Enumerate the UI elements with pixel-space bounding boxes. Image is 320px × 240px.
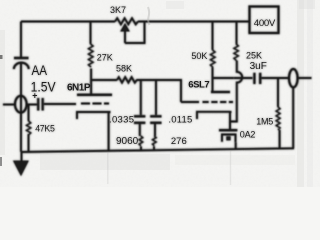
svg-text:27K: 27K <box>97 53 113 63</box>
wire: output line from plate node <box>213 77 234 79</box>
faint scan squiggle right of 3K7 loop <box>148 7 150 25</box>
resistor 47K5 <box>28 105 30 122</box>
resistor 25K <box>234 44 238 61</box>
capacitor 3uF right plate <box>259 73 261 84</box>
paper background <box>0 0 320 187</box>
wire: 58K to 6SL7 grid <box>137 80 182 102</box>
svg-text:+: + <box>32 91 37 101</box>
svg-text:276: 276 <box>171 136 187 147</box>
scan artifact marks at left edge <box>0 55 3 166</box>
0A2 cathode (inverted U) <box>222 135 236 143</box>
resistor 3K7 (potentiometer) <box>115 18 138 24</box>
wire: top rail drop to 27K <box>90 22 92 45</box>
wire: jack to coupling cap <box>27 104 38 106</box>
battery AA 1.5V: curved plate <box>14 63 29 69</box>
wire: node to 58K <box>91 79 117 81</box>
capacitor .0115 plates <box>150 115 161 117</box>
plate of 6N1P <box>77 94 112 96</box>
svg-text:.0335: .0335 <box>109 114 134 125</box>
svg-text:47K5: 47K5 <box>35 124 55 134</box>
svg-text:0A2: 0A2 <box>240 130 256 140</box>
output jack (circle) <box>289 69 298 87</box>
faint left edge streak <box>0 30 5 155</box>
light scan band above bottom edge <box>40 154 170 170</box>
wire: top rail drop to 50K <box>212 22 214 51</box>
wire: top rail left segment <box>21 21 115 23</box>
svg-text:58K: 58K <box>116 64 132 74</box>
wire: 27K to 6N1P plate <box>90 69 92 95</box>
wire: wiper loop to right end of 3K7 <box>125 22 145 43</box>
capacitor 3uF left plate <box>253 73 255 84</box>
svg-text:50K: 50K <box>191 51 207 61</box>
resistor 58K <box>117 77 137 82</box>
wire: right of output jack <box>298 77 312 79</box>
faint smudge top right <box>166 1 184 9</box>
scan halo (blurred ghost of circuit) <box>3 5 312 175</box>
light scan streaks right side <box>297 0 304 187</box>
resistor 27K <box>89 44 94 67</box>
battery AA 1.5V: flat plate <box>14 57 29 59</box>
grid of 6SL7 (solid+dashed) <box>181 101 199 103</box>
ground arrow <box>21 152 23 162</box>
wire: hop over output line (25K lead) <box>234 77 253 79</box>
svg-text:AA: AA <box>32 63 48 78</box>
wire: 25K lead with hop over output wire <box>230 61 242 122</box>
wire: ground rail <box>21 148 294 152</box>
wire: cap to 6N1P grid (solid part) <box>44 103 76 105</box>
power supply box 400V <box>250 7 279 34</box>
resistor 50K <box>211 50 216 67</box>
capacitor .0335 branch wire <box>140 80 142 115</box>
wire: top rail right segment <box>138 21 250 23</box>
capacitor (input coupling, +) left plate <box>37 98 39 111</box>
0A2 anode plate <box>219 129 237 131</box>
3K7 wiper arrow <box>124 31 126 44</box>
wire: down to 0A2 anode <box>229 122 231 130</box>
wire: 6N1P cathode to ground <box>108 112 110 151</box>
wire: through jack down to ground rail <box>20 96 22 152</box>
capacitor .0335 plates <box>134 115 145 117</box>
resistor 1M5 <box>277 78 279 107</box>
svg-text:25K: 25K <box>246 51 262 61</box>
faint scanner bleed streaks below ground rail <box>108 150 231 185</box>
svg-text:6SL7: 6SL7 <box>188 80 209 91</box>
wire: battery to input jack <box>20 64 22 97</box>
svg-text:.0115: .0115 <box>168 114 192 125</box>
grid of 6N1P (dashed) <box>81 102 109 104</box>
plate of 6SL7 <box>211 91 230 93</box>
wire: 50K to 6SL7 plate <box>212 68 214 92</box>
wire: stub left of jack <box>3 104 15 106</box>
capacitor .0115 branch wire <box>155 80 157 115</box>
resistor 276 <box>152 136 156 146</box>
svg-text:3uF: 3uF <box>250 61 267 72</box>
capacitor right plate <box>42 98 44 111</box>
svg-text:3K7: 3K7 <box>110 5 126 15</box>
input jack (circle) <box>15 96 27 113</box>
svg-text:9060: 9060 <box>116 136 139 147</box>
svg-text:6N1P: 6N1P <box>67 82 91 93</box>
resistor 9060 <box>139 136 143 146</box>
cathode of 6SL7 <box>197 111 231 119</box>
svg-text:1M5: 1M5 <box>256 117 273 127</box>
svg-text:400V: 400V <box>254 18 276 29</box>
wire: 6SL7 cathode down to 0A2 <box>229 112 231 130</box>
wire: top rail drop to 25K <box>236 22 238 45</box>
wire: 3uF to output jack <box>261 77 289 79</box>
wire: left rail down to battery <box>20 22 22 58</box>
0A2 gas dot <box>226 136 230 140</box>
wire: output jack to ground rail <box>292 87 294 148</box>
wire: 0A2 to ground rail <box>235 142 237 149</box>
cathode of 6N1P <box>77 111 110 119</box>
